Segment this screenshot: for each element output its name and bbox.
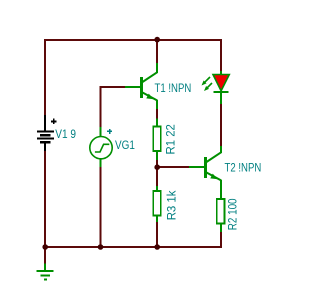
T2 collector lead <box>220 146 222 153</box>
label T1 !NPN <box>155 82 192 95</box>
LED light arrow 1 <box>202 77 211 86</box>
LED cathode bar <box>213 91 228 93</box>
wire R2 bottom to bottom rail <box>220 232 222 248</box>
svg-text:R1 22: R1 22 <box>164 124 177 154</box>
svg-text:R2 100: R2 100 <box>227 198 240 230</box>
resistor R2 <box>217 199 225 224</box>
transistor T2 <box>204 152 221 180</box>
wire left vertical upper <box>44 39 46 115</box>
node junction top (T1 collector / LED rail) <box>154 37 160 43</box>
R2 bottom lead <box>220 223 222 232</box>
wire node to T2 base <box>157 166 189 168</box>
svg-text:VG1: VG1 <box>115 139 135 152</box>
VG1 plus sign <box>107 129 112 134</box>
R3 top lead <box>156 186 158 191</box>
wire T1 emitter to R1 <box>156 109 158 119</box>
LED light arrow 2 <box>204 83 212 91</box>
wire ground drop <box>44 247 46 264</box>
R1 top lead <box>156 119 158 127</box>
wire left vertical lower <box>44 150 46 248</box>
wire LED top drop <box>220 39 222 71</box>
transistor T1 <box>140 72 157 100</box>
ground <box>37 264 54 281</box>
wire T1 collector drop <box>156 40 158 64</box>
T1 collector lead <box>156 63 158 73</box>
label T2 !NPN <box>225 162 262 175</box>
label R1 22 <box>164 124 177 154</box>
LED top lead <box>220 71 222 75</box>
wire VG1 bottom <box>100 166 102 247</box>
T2 emitter lead <box>220 180 222 199</box>
wire LED cathode to T2 collector <box>220 104 222 146</box>
label VG1 <box>115 139 135 152</box>
T1 emitter lead <box>156 100 158 109</box>
node junction ground rail left <box>42 244 48 250</box>
LED bottom lead <box>220 93 222 104</box>
generator VG1 <box>90 137 112 159</box>
label R2 100 <box>227 198 240 230</box>
wire R3 bottom to bottom rail <box>156 221 158 247</box>
node junction R1/R3/T2 base <box>154 164 160 170</box>
battery V1 <box>37 115 54 151</box>
node junction ground rail VG1 <box>98 244 104 250</box>
svg-text:T2 !NPN: T2 !NPN <box>225 162 262 175</box>
wire VG1 top to T1 base corner <box>100 86 126 128</box>
wire bottom rail <box>44 246 222 248</box>
wire top rail <box>44 39 222 41</box>
battery plus sign <box>51 119 57 125</box>
VG1 lead top <box>100 127 102 137</box>
T2 base lead <box>189 166 204 168</box>
label R3 1k <box>165 190 178 220</box>
T1 base lead <box>125 86 140 88</box>
resistor R1 <box>153 127 161 152</box>
LED D1 <box>213 75 229 91</box>
resistor R3 <box>153 191 161 216</box>
wire R1 bottom to node <box>156 160 158 167</box>
label V1 9 <box>55 128 76 141</box>
VG1 lead bottom <box>100 158 102 167</box>
wire node to R3 top <box>156 167 158 186</box>
svg-text:V1 9: V1 9 <box>55 128 76 141</box>
R1 bottom lead <box>156 151 158 160</box>
svg-text:T1 !NPN: T1 !NPN <box>155 82 192 95</box>
node junction ground rail R3 <box>154 244 160 250</box>
R3 bottom lead <box>156 216 158 223</box>
svg-text:R3 1k: R3 1k <box>165 190 178 220</box>
